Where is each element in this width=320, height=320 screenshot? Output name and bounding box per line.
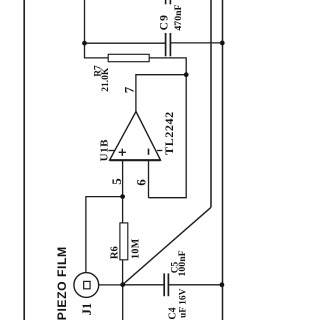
wire : R6 bottom to bottom node — [122, 260, 124, 285]
wire : R7 right end to output node — [149, 58, 186, 75]
svg-text:100nF: 100nF — [177, 250, 188, 276]
resistor R6 — [120, 223, 128, 260]
svg-text:PIEZO FILM: PIEZO FILM — [55, 246, 69, 320]
svg-text:C9: C9 — [158, 14, 170, 30]
junction C9 / rail — [220, 41, 225, 46]
wire : op-amp output to output node — [136, 75, 186, 112]
wire : right vertical rail — [222, 0, 224, 320]
wire : pin5 node down to R6 — [122, 197, 124, 223]
capacitor C5 — [164, 273, 168, 296]
wire : diagonal down to J1 bottom node — [123, 207, 211, 284]
svg-text:10M: 10M — [131, 238, 142, 259]
svg-text:21.0K: 21.0K — [101, 67, 111, 92]
resistor R7 — [108, 54, 149, 61]
op-amp U1B triangle — [110, 112, 161, 161]
capacitor (cut off at top edge) plate stubs — [166, 0, 171, 4]
svg-text:470nF: 470nF — [173, 4, 184, 30]
wire : left border line — [23, 0, 25, 320]
junction pin5 node — [120, 194, 125, 199]
wire : node A to C9 left plate — [85, 42, 166, 44]
junction bottom node — [120, 282, 125, 287]
svg-text:uF 16V: uF 16V — [179, 288, 189, 318]
svg-text:TL2242: TL2242 — [162, 111, 176, 155]
wire : C9 right plate to right rail — [170, 42, 222, 44]
wire : node A down and right to R7 — [85, 43, 109, 58]
junction output node — [184, 72, 189, 77]
capacitor C9 — [166, 33, 171, 56]
op-amp minus input marking — [148, 149, 150, 155]
svg-text:J1: J1 — [80, 303, 94, 316]
junction C5 / rail — [220, 282, 225, 287]
wire : pin5 node left and down to J1 top — [86, 197, 123, 273]
wire : pin 6 lead — [148, 161, 150, 198]
svg-text:R6: R6 — [110, 246, 121, 259]
wire : feedback from output node down to pin 6 — [149, 75, 187, 198]
connector J1 inner square — [84, 281, 90, 288]
op-amp plus input marking — [119, 149, 126, 156]
wire : rail to diagonal — [210, 0, 212, 207]
svg-text:C4: C4 — [168, 307, 179, 319]
junction node A — [82, 41, 87, 46]
op-amp base thick edge — [110, 159, 161, 161]
svg-text:7: 7 — [122, 86, 137, 93]
wire : bottom node down to bottom edge — [122, 285, 124, 320]
svg-text:U1B: U1B — [98, 139, 110, 162]
wire : C5 right plate to right rail — [168, 284, 222, 286]
wire : pin 5 lead — [122, 161, 124, 197]
wire : bottom node to C5 left plate — [123, 284, 165, 286]
connector J1 circle — [74, 273, 99, 298]
svg-text:5: 5 — [109, 178, 124, 185]
wire : node A vertical from top edge — [84, 0, 86, 43]
op-amp V+ power stub — [108, 150, 115, 152]
wire : J1 right to bottom node — [99, 284, 123, 286]
svg-text:6: 6 — [133, 179, 148, 186]
op-amp V- power stub — [157, 150, 162, 152]
